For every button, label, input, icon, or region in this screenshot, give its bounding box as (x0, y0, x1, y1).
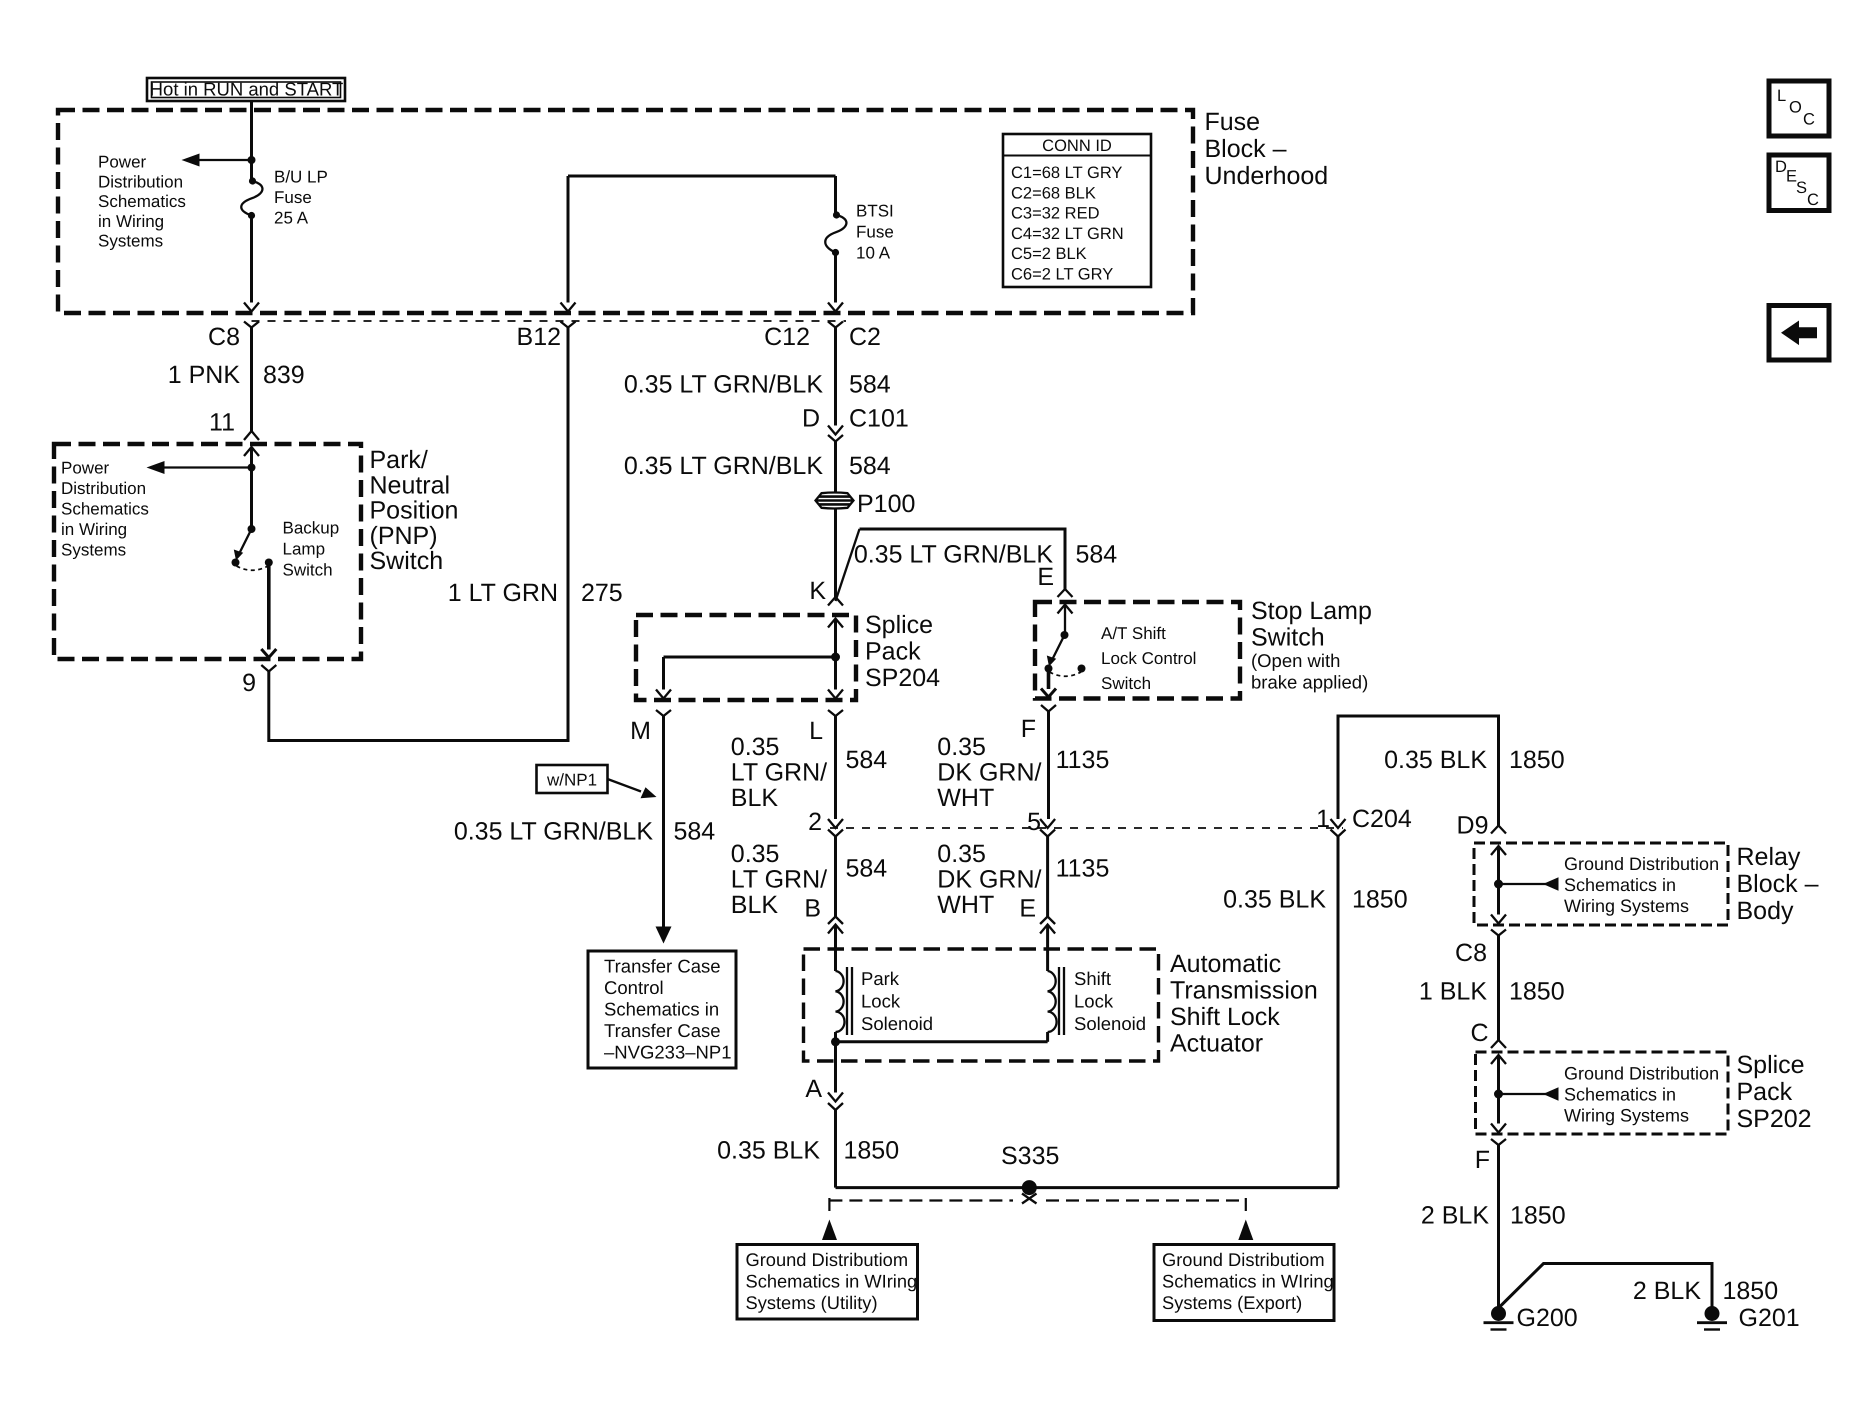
svg-text:B12: B12 (517, 323, 561, 351)
label: Hot in RUN and START feed box (147, 78, 345, 101)
svg-text:Schematics in: Schematics in (1564, 1085, 1676, 1105)
label: 0.35 LT GRN/BLK (below C204) (731, 840, 827, 919)
w/NP1 option tag (537, 765, 657, 798)
svg-text:LT GRN/: LT GRN/ (731, 759, 827, 787)
svg-text:Lamp: Lamp (283, 540, 326, 559)
svg-text:brake applied): brake applied) (1251, 672, 1368, 693)
fuse block - underhood dashed box (58, 110, 1193, 313)
arrowhead at pin 9 (261, 649, 276, 658)
svg-text:5: 5 (1027, 808, 1041, 836)
arrowhead at pin F (1041, 689, 1056, 698)
ground distribution reference box (utility) (737, 1245, 918, 1320)
connector chevron pin 9 (261, 665, 276, 672)
connector chevron at pin 11 (244, 431, 259, 440)
svg-text:Transmission: Transmission (1170, 977, 1318, 1005)
svg-text:Lock: Lock (861, 991, 901, 1012)
label: Splice Pack SP204 (865, 611, 940, 692)
svg-text:DK GRN/: DK GRN/ (937, 866, 1041, 894)
svg-text:9: 9 (242, 669, 256, 697)
svg-text:2 BLK: 2 BLK (1633, 1277, 1701, 1305)
arrowhead at M (656, 690, 671, 699)
svg-text:E: E (1037, 563, 1054, 591)
connector chevron at C (1491, 1040, 1506, 1048)
svg-text:584: 584 (1076, 541, 1118, 569)
wire: switch output to pin 9 (267, 566, 271, 650)
svg-text:C6=2 LT GRY: C6=2 LT GRY (1011, 266, 1113, 284)
wire: through relay block (1497, 846, 1500, 915)
svg-text:Ground Distributiom: Ground Distributiom (746, 1249, 909, 1270)
switch: A/T shift lock control pivot (1061, 631, 1069, 639)
svg-text:275: 275 (581, 579, 623, 607)
fuse: BTSI 10A (825, 202, 894, 263)
ground G201 (1697, 1304, 1800, 1332)
svg-text:Lock: Lock (1074, 991, 1114, 1012)
label: 0.35 DK GRN/WHT (lower) (937, 840, 1041, 919)
svg-text:10 A: 10 A (856, 244, 891, 263)
svg-text:Lock Control: Lock Control (1101, 649, 1196, 668)
node: branch junction in PNP box (248, 464, 256, 472)
splice S335 crimp mark (1022, 1194, 1037, 1204)
svg-text:1 LT GRN: 1 LT GRN (448, 579, 558, 607)
wire: pin A to S335 (834, 1110, 837, 1188)
svg-text:Body: Body (1737, 897, 1794, 925)
svg-text:Solenoid: Solenoid (861, 1013, 933, 1034)
connector C8 chevron (244, 322, 259, 328)
arrowhead at C8 (244, 303, 259, 312)
svg-text:B: B (804, 895, 821, 923)
svg-text:Systems (Export): Systems (Export) (1162, 1292, 1302, 1313)
wire: M leg down to transfer case reference (662, 716, 665, 928)
svg-text:Power: Power (61, 459, 110, 478)
connector crossing at pin 2 (828, 819, 843, 828)
svg-text:584: 584 (849, 371, 891, 399)
svg-text:Ground Distributiom: Ground Distributiom (1162, 1249, 1325, 1270)
entry arrow inside SP202 (1491, 1055, 1506, 1064)
connector crossing at pin 5 (1040, 819, 1055, 828)
switch contact left (1045, 665, 1053, 673)
wire: solenoid commons (834, 1032, 837, 1042)
svg-text:in Wiring: in Wiring (61, 520, 127, 539)
entry arrow inside PNP box (244, 447, 259, 456)
connector B12 chevron (561, 322, 576, 328)
label: Stop Lamp Switch (1251, 597, 1372, 693)
wire: 275 LT GRN run from pin 9 up to B12 (269, 328, 568, 741)
svg-text:Shift Lock: Shift Lock (1170, 1003, 1280, 1031)
connector chevron at D9 (1491, 826, 1506, 834)
svg-text:1850: 1850 (1509, 978, 1565, 1006)
actuator dashed box (804, 949, 1159, 1061)
svg-text:F: F (1021, 715, 1036, 743)
label: Automatic Transmission Shift Lock Actuator (1170, 950, 1318, 1058)
svg-text:839: 839 (263, 361, 305, 389)
svg-text:K: K (809, 577, 826, 605)
arrowhead to ground distribution (utility) (822, 1220, 837, 1241)
svg-text:584: 584 (846, 855, 888, 883)
ground distribution reference box (export) (1154, 1245, 1334, 1321)
splice pack SP204 dashed box (636, 615, 856, 700)
label: power distribution reference (fuse block) (98, 153, 186, 251)
arrowhead to power distribution reference (147, 461, 165, 474)
svg-text:2 BLK: 2 BLK (1421, 1202, 1489, 1230)
connector chevron L (828, 710, 843, 716)
svg-text:(PNP): (PNP) (370, 522, 438, 550)
svg-text:0.35: 0.35 (937, 840, 986, 868)
switch blade arrowhead (1047, 656, 1056, 667)
switch travel dashed arc (1050, 672, 1082, 676)
svg-text:(Open with: (Open with (1251, 650, 1340, 671)
svg-text:Distribution: Distribution (61, 479, 146, 498)
svg-text:0.35 LT GRN/BLK: 0.35 LT GRN/BLK (624, 452, 823, 480)
svg-text:0.35 LT GRN/BLK: 0.35 LT GRN/BLK (624, 371, 823, 399)
svg-text:C5=2 BLK: C5=2 BLK (1011, 245, 1087, 263)
connector at actuator pin E (1040, 917, 1055, 925)
connector at actuator pin B (828, 917, 843, 925)
svg-text:Transfer Case: Transfer Case (604, 1020, 721, 1041)
svg-text:Fuse: Fuse (274, 188, 312, 207)
branch to ground distribution reference (SP202) (1499, 1093, 1547, 1095)
svg-text:1135: 1135 (1056, 746, 1110, 774)
connector C12/C2 chevron (828, 322, 843, 328)
dashed ground references from S335 (829, 1199, 1013, 1201)
switch blade (240, 529, 252, 552)
entry arrow inside stop lamp switch (1058, 605, 1073, 614)
node: SP202 junction (1494, 1090, 1503, 1099)
svg-text:Power: Power (98, 153, 147, 172)
branch to ground distribution reference (relay) (1499, 883, 1547, 885)
node: splice S335 (1022, 1180, 1037, 1195)
relay block - body dashed box (1474, 843, 1728, 925)
coil: park lock solenoid (836, 967, 934, 1035)
svg-text:Position: Position (370, 497, 459, 525)
label: 0.35 LT GRN/BLK (L leg) (731, 733, 827, 812)
svg-text:LT GRN/: LT GRN/ (731, 866, 827, 894)
wire: through SP202 (1497, 1055, 1500, 1124)
splice pack SP202 dashed box (1476, 1052, 1729, 1134)
grommet P100 (816, 490, 916, 518)
in-line connector pin A (828, 1093, 843, 1102)
wire: pin B into actuator (834, 925, 837, 972)
label: Relay Block - Body (1737, 843, 1819, 925)
svg-text:SP202: SP202 (1737, 1105, 1812, 1133)
label: Park/Neutral Position (PNP) Switch (370, 446, 459, 575)
svg-text:Wiring Systems: Wiring Systems (1564, 1106, 1689, 1126)
wire: splice to M leg (664, 656, 836, 659)
switch travel dashed arc (237, 566, 269, 570)
svg-text:L: L (1777, 87, 1786, 105)
svg-text:Systems: Systems (98, 232, 163, 251)
svg-text:Schematics in: Schematics in (604, 999, 719, 1020)
in-line connector C101 (828, 426, 843, 435)
label: power distribution reference (PNP) (61, 459, 149, 560)
svg-text:584: 584 (674, 818, 716, 846)
svg-text:F: F (1475, 1146, 1490, 1174)
wire: pin 5 to actuator pin E (1046, 837, 1049, 917)
node: relay block junction (1494, 880, 1503, 889)
svg-text:C8: C8 (1455, 939, 1487, 967)
svg-text:CONN ID: CONN ID (1042, 137, 1112, 155)
back-arrow nav box (1769, 306, 1829, 361)
svg-text:–NVG233–NP1: –NVG233–NP1 (604, 1042, 732, 1063)
wire: branch to power distribution reference (197, 159, 252, 161)
CONN ID table (1003, 134, 1151, 287)
svg-text:Relay: Relay (1737, 843, 1801, 871)
svg-text:A: A (805, 1075, 822, 1103)
arrowhead to ground distribution (export) (1238, 1220, 1253, 1241)
svg-text:G201: G201 (1739, 1304, 1800, 1332)
wire: C8 to PNP switch pin 11 (250, 328, 253, 432)
svg-text:0.35 BLK: 0.35 BLK (1384, 746, 1487, 774)
svg-text:Park/: Park/ (370, 446, 428, 474)
wire: diagonal branch from K to stop lamp feed (836, 529, 860, 601)
wire: pin 11 to switch pivot (250, 447, 253, 529)
svg-text:1 BLK: 1 BLK (1419, 978, 1487, 1006)
svg-text:C: C (1803, 111, 1815, 129)
svg-text:Actuator: Actuator (1170, 1030, 1263, 1058)
svg-text:C1=68 LT GRY: C1=68 LT GRY (1011, 164, 1122, 182)
node: splice junction (831, 653, 840, 662)
label: Splice Pack SP202 (1737, 1051, 1812, 1133)
wire: SP202 F to ground G200 (1497, 1145, 1500, 1307)
svg-text:Neutral: Neutral (370, 471, 451, 499)
svg-text:L: L (809, 717, 823, 745)
connector chevron at K (828, 597, 843, 606)
svg-text:Systems: Systems (61, 541, 126, 560)
wire: BTSI fuse output to C2 (834, 253, 837, 303)
wire: BTSI feed horizontal (568, 175, 836, 178)
switch blade arrowhead (234, 550, 243, 561)
svg-text:E: E (1019, 895, 1036, 923)
svg-text:Pack: Pack (1737, 1078, 1793, 1106)
wire: fuse output to C8 (250, 216, 253, 303)
connector chevron at E (1058, 589, 1073, 597)
arrowhead at L (828, 690, 843, 699)
svg-text:C4=32 LT GRN: C4=32 LT GRN (1011, 225, 1124, 243)
ground G200 (1484, 1304, 1578, 1332)
svg-text:Transfer Case: Transfer Case (604, 956, 721, 977)
arrowhead into transfer case reference (656, 927, 672, 944)
svg-text:P100: P100 (857, 490, 915, 518)
svg-text:D9: D9 (1457, 812, 1489, 840)
svg-text:Hot in RUN and START: Hot in RUN and START (150, 79, 344, 100)
svg-text:Shift: Shift (1074, 968, 1111, 989)
svg-text:584: 584 (846, 746, 888, 774)
svg-text:C204: C204 (1352, 805, 1412, 833)
arrowhead at B12 (561, 303, 576, 312)
label: 0.35 DK GRN/WHT (upper) (937, 733, 1041, 812)
connector crossing at pin 1 (1331, 819, 1346, 828)
svg-text:0.35: 0.35 (731, 840, 780, 868)
switch contact right (265, 559, 273, 567)
wire: branch to G201 (1499, 1264, 1713, 1309)
svg-text:1850: 1850 (844, 1137, 900, 1165)
wire: F to C204 pin 5 (1047, 712, 1050, 820)
svg-text:C12: C12 (764, 323, 810, 351)
svg-text:Park: Park (861, 968, 900, 989)
svg-text:in Wiring: in Wiring (98, 212, 164, 231)
wire: common to pin A (834, 1042, 837, 1093)
svg-text:1 PNK: 1 PNK (168, 361, 241, 389)
svg-text:1850: 1850 (1723, 1277, 1779, 1305)
svg-text:Switch: Switch (370, 547, 444, 575)
svg-text:A/T Shift: A/T Shift (1101, 624, 1166, 643)
LOC nav box (1769, 81, 1829, 136)
wire: B12 drop (567, 176, 570, 303)
svg-text:Schematics in: Schematics in (1564, 875, 1676, 895)
svg-text:C2: C2 (849, 323, 881, 351)
connector chevron M (656, 710, 671, 716)
svg-text:Switch: Switch (283, 561, 333, 580)
connector row C204 dashed line (830, 827, 1343, 829)
svg-text:Splice: Splice (1737, 1051, 1805, 1079)
label: Backup Lamp Switch (283, 519, 340, 580)
label: Fuse Block - Underhood (1205, 108, 1329, 190)
arrowhead exiting relay block (1491, 915, 1506, 924)
svg-text:1135: 1135 (1056, 855, 1110, 883)
svg-text:SP204: SP204 (865, 664, 940, 692)
svg-text:Backup: Backup (283, 519, 340, 538)
svg-text:WHT: WHT (937, 784, 994, 812)
svg-text:Switch: Switch (1251, 624, 1325, 652)
svg-text:C: C (1470, 1019, 1488, 1047)
wire: C101 to P100 (834, 442, 837, 493)
switch blade (1053, 635, 1065, 658)
svg-text:D: D (802, 405, 820, 433)
svg-text:0.35 LT GRN/BLK: 0.35 LT GRN/BLK (854, 541, 1053, 569)
svg-text:Schematics in WIring: Schematics in WIring (746, 1271, 918, 1292)
arrowhead to power distribution reference (182, 154, 200, 167)
svg-text:B/U LP: B/U LP (274, 168, 328, 187)
svg-text:Distribution: Distribution (98, 172, 183, 191)
svg-text:S335: S335 (1001, 1142, 1059, 1170)
wire: relay C8 to splice pack C (1497, 936, 1500, 1041)
wire: splice vertical (834, 619, 837, 690)
svg-text:Pack: Pack (865, 638, 921, 666)
svg-text:Schematics in WIring: Schematics in WIring (1162, 1271, 1334, 1292)
svg-text:0.35 LT GRN/BLK: 0.35 LT GRN/BLK (454, 818, 653, 846)
connector chevron pin F (1041, 705, 1056, 712)
svg-text:WHT: WHT (937, 891, 994, 919)
svg-text:w/NP1: w/NP1 (546, 771, 597, 790)
svg-text:Schematics: Schematics (61, 500, 149, 519)
wire: branch to power distribution reference (162, 466, 252, 468)
svg-text:Solenoid: Solenoid (1074, 1013, 1146, 1034)
wire: ground trunk to C204 pin 1 riser (836, 1186, 1339, 1189)
svg-text:0.35 BLK: 0.35 BLK (1223, 886, 1326, 914)
svg-text:1850: 1850 (1510, 1202, 1566, 1230)
svg-text:Wiring Systems: Wiring Systems (1564, 896, 1689, 916)
svg-text:O: O (1789, 99, 1802, 117)
DESC nav box (1769, 155, 1829, 211)
entry arrow inside relay block (1491, 846, 1506, 855)
svg-text:0.35 BLK: 0.35 BLK (717, 1137, 820, 1165)
wire: drop to BTSI fuse (834, 176, 837, 215)
svg-text:Ground Distribution: Ground Distribution (1564, 854, 1719, 874)
svg-text:C101: C101 (849, 405, 909, 433)
arrowhead at C2 (828, 303, 843, 312)
connector chevron F (SP202) (1491, 1139, 1506, 1145)
coil: shift lock solenoid (1048, 967, 1146, 1035)
svg-text:C: C (1807, 191, 1819, 209)
svg-text:C3=32 RED: C3=32 RED (1011, 205, 1100, 223)
wire: S335 riser to C204 pin 1 (1337, 837, 1340, 1188)
svg-text:1850: 1850 (1352, 886, 1408, 914)
arrowhead exiting SP202 (1491, 1124, 1506, 1133)
wire: branch horizontal to E (860, 529, 1066, 589)
label: A/T Shift Lock Control Switch (1101, 624, 1196, 693)
svg-text:BTSI: BTSI (856, 202, 894, 221)
svg-text:S: S (1796, 179, 1807, 197)
svg-text:584: 584 (849, 452, 891, 480)
svg-text:1850: 1850 (1509, 746, 1565, 774)
svg-text:DK GRN/: DK GRN/ (937, 759, 1041, 787)
entry arrow inside SP204 (828, 619, 843, 628)
svg-text:C2=68 BLK: C2=68 BLK (1011, 184, 1096, 202)
svg-text:Switch: Switch (1101, 674, 1151, 693)
svg-text:Systems (Utility): Systems (Utility) (746, 1292, 878, 1313)
svg-text:Automatic: Automatic (1170, 950, 1281, 978)
wire: pin E into actuator (1046, 925, 1049, 972)
switch: backup lamp switch pivot (248, 525, 256, 533)
switch contact left (232, 559, 240, 567)
svg-text:Splice: Splice (865, 611, 933, 639)
svg-text:C8: C8 (208, 323, 240, 351)
wire: ignition feed into B/U LP fuse (250, 101, 253, 181)
wire: pin 2 to actuator pin B (834, 837, 837, 917)
svg-text:Fuse: Fuse (856, 223, 894, 242)
svg-text:0.35: 0.35 (937, 733, 986, 761)
wire: pin 1 over to D9 (1338, 716, 1499, 826)
svg-text:0.35: 0.35 (731, 733, 780, 761)
svg-text:2: 2 (808, 808, 822, 836)
svg-text:Control: Control (604, 977, 664, 998)
svg-text:11: 11 (209, 409, 235, 437)
wire: L to C204 pin 2 (834, 716, 837, 819)
stop lamp switch dashed box (1035, 602, 1240, 699)
node: feed junction (248, 156, 256, 164)
svg-text:BLK: BLK (731, 784, 779, 812)
svg-text:BLK: BLK (731, 891, 779, 919)
wire: C2 to C101 (834, 328, 837, 426)
transfer case control reference box (588, 951, 736, 1068)
svg-text:Fuse: Fuse (1205, 108, 1261, 136)
svg-text:Block –: Block – (1737, 870, 1819, 898)
node: solenoid common junction (831, 1037, 840, 1046)
wire: switch output to pin F (1047, 672, 1051, 689)
svg-text:Ground Distribution: Ground Distribution (1564, 1064, 1719, 1084)
fuse: B/U LP 25A (241, 168, 328, 228)
connector chevron C8 (relay) (1491, 930, 1506, 936)
svg-text:Stop Lamp: Stop Lamp (1251, 597, 1372, 625)
svg-text:1: 1 (1316, 805, 1330, 833)
svg-text:G200: G200 (1517, 1304, 1578, 1332)
svg-text:25 A: 25 A (274, 209, 309, 228)
switch contact right (1078, 665, 1086, 673)
svg-text:Underhood: Underhood (1205, 162, 1329, 190)
svg-text:Block –: Block – (1205, 135, 1287, 163)
wire: P100 to splice pack K (834, 509, 837, 597)
svg-text:M: M (630, 717, 651, 745)
svg-text:Schematics: Schematics (98, 192, 186, 211)
connector row dashed line (C8/B12/C2) (252, 320, 847, 322)
park/neutral position switch dashed box (54, 444, 361, 659)
